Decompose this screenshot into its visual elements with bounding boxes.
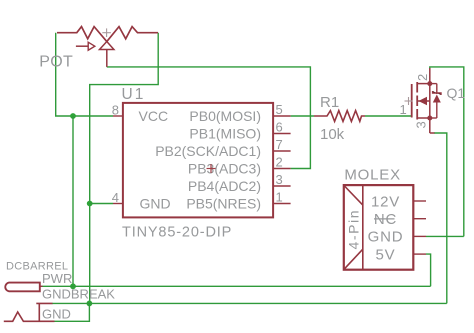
svg-text:4-Pin: 4-Pin xyxy=(346,209,362,250)
potentiometer POT wiper triangle and stem xyxy=(100,42,114,67)
svg-text:GND: GND xyxy=(140,196,171,212)
svg-text:5: 5 xyxy=(276,102,283,117)
svg-text:GND: GND xyxy=(42,306,71,321)
svg-text:5V: 5V xyxy=(376,246,396,263)
U1 pin 8 stub xyxy=(113,115,123,117)
DC barrel tip lead (PWR) xyxy=(40,285,43,287)
svg-text:Q1: Q1 xyxy=(447,85,466,101)
svg-text:2: 2 xyxy=(415,74,430,81)
op-amp U1 box (ATtiny85 IC body) xyxy=(123,103,273,217)
transistor Q1 substrate arrow xyxy=(417,97,430,105)
node GND junction at U1 pin 4 xyxy=(87,201,93,207)
pot origin cross xyxy=(102,28,111,37)
MOLEX pin NC stub xyxy=(413,218,426,220)
wire R1 to Q1 gate xyxy=(365,115,412,117)
transistor Q1 channel bar xyxy=(416,82,418,120)
svg-text:PB4(ADC2): PB4(ADC2) xyxy=(188,178,261,194)
svg-text:GND: GND xyxy=(368,229,404,246)
GNDBREAK jumper symbol (sawtooth) xyxy=(4,303,55,321)
wire VCC drop from pin8 junction to PWR rail xyxy=(72,116,74,286)
Q1 body diode xyxy=(430,84,441,118)
U1 pin 2 stub xyxy=(273,168,291,170)
svg-text:6: 6 xyxy=(276,120,283,135)
svg-text:NC: NC xyxy=(374,211,397,228)
svg-text:PB3(ADC3): PB3(ADC3) xyxy=(188,161,261,177)
connector MOLEX box xyxy=(344,185,414,270)
node Q1 drain dot xyxy=(427,81,432,86)
svg-text:PWR: PWR xyxy=(42,271,72,286)
wire U1 pin4 to GND column xyxy=(90,203,113,205)
U1 pin 4 stub xyxy=(113,203,123,205)
node GNDBREAK junction xyxy=(87,301,93,307)
wire Q1 drain loop to MOLEX GND row xyxy=(430,67,464,237)
transistor Q1 drain connection xyxy=(417,68,430,84)
svg-text:7: 7 xyxy=(276,137,283,152)
MOLEX pin 5V stub xyxy=(413,253,426,255)
U1 pin 1 stub xyxy=(273,203,291,205)
node Q1 source dot xyxy=(427,116,432,121)
wire pot left terminal to U1 pin 8 (VCC net) xyxy=(56,33,113,116)
U1 pin 7 stub xyxy=(273,150,291,152)
svg-text:U1: U1 xyxy=(122,86,146,103)
wire pot wiper to U1 pin2 PB3/ADC3 xyxy=(107,67,311,169)
node VCC junction at pin8 xyxy=(70,113,76,119)
svg-text:PB0(MOSI): PB0(MOSI) xyxy=(189,108,261,124)
MOLEX bottom diagonal xyxy=(344,249,363,269)
transistor Q1 gate bar xyxy=(411,84,413,118)
DC barrel jack symbol xyxy=(5,283,40,292)
wire MOLEX 5V drop xyxy=(426,254,431,286)
wire pot right terminal down and across to GND column xyxy=(90,33,159,304)
wire Q1 source return to GNDBREAK rail xyxy=(434,133,447,303)
svg-text:1: 1 xyxy=(276,190,283,205)
svg-text:2: 2 xyxy=(276,155,283,170)
svg-text:12V: 12V xyxy=(371,193,400,210)
svg-text:R1: R1 xyxy=(320,94,339,111)
svg-text:8: 8 xyxy=(112,103,119,118)
wire U1 pin5 to R1 xyxy=(291,115,314,117)
MOLEX inner divider xyxy=(362,185,364,270)
U1 pin 6 stub xyxy=(273,133,291,135)
svg-text:4: 4 xyxy=(112,190,119,205)
svg-text:PB1(MISO): PB1(MISO) xyxy=(189,126,261,142)
svg-text:3: 3 xyxy=(414,121,429,128)
U1 origin cross xyxy=(207,164,216,173)
svg-text:MOLEX: MOLEX xyxy=(344,167,401,184)
potentiometer POT wiper arrow xyxy=(76,42,95,50)
resistor R1 xyxy=(314,111,365,122)
wire GND symbol link up to GNDBREAK junction xyxy=(54,303,89,321)
svg-text:1: 1 xyxy=(400,102,407,117)
potentiometer POT resistor body xyxy=(57,27,158,42)
svg-text:3: 3 xyxy=(276,172,283,187)
svg-text:PB2(SCK/ADC1): PB2(SCK/ADC1) xyxy=(155,143,261,159)
node PWR junction at barrel rail xyxy=(70,283,76,289)
wire GNDBREAK rail to MOSFET source return xyxy=(52,302,447,304)
transistor Q1 source connection xyxy=(417,84,434,133)
wire MOLEX GND row xyxy=(426,235,464,237)
svg-text:POT: POT xyxy=(39,54,73,71)
wire PWR rail from DC barrel to MOLEX 5V drop xyxy=(42,285,431,287)
MOLEX pin GND stub xyxy=(413,235,426,237)
MOLEX pin 12V stub xyxy=(413,200,426,202)
svg-text:10k: 10k xyxy=(320,126,345,143)
svg-text:VCC: VCC xyxy=(139,108,169,124)
svg-text:TINY85-20-DIP: TINY85-20-DIP xyxy=(122,225,232,241)
Q1 origin cross xyxy=(405,97,413,105)
U1 pin 3 stub xyxy=(273,185,291,187)
MOLEX top diagonal xyxy=(344,186,363,206)
U1 pin 5 stub xyxy=(273,115,291,117)
svg-text:GNDBREAK: GNDBREAK xyxy=(42,287,115,302)
svg-text:PB5(NRES): PB5(NRES) xyxy=(186,196,261,212)
